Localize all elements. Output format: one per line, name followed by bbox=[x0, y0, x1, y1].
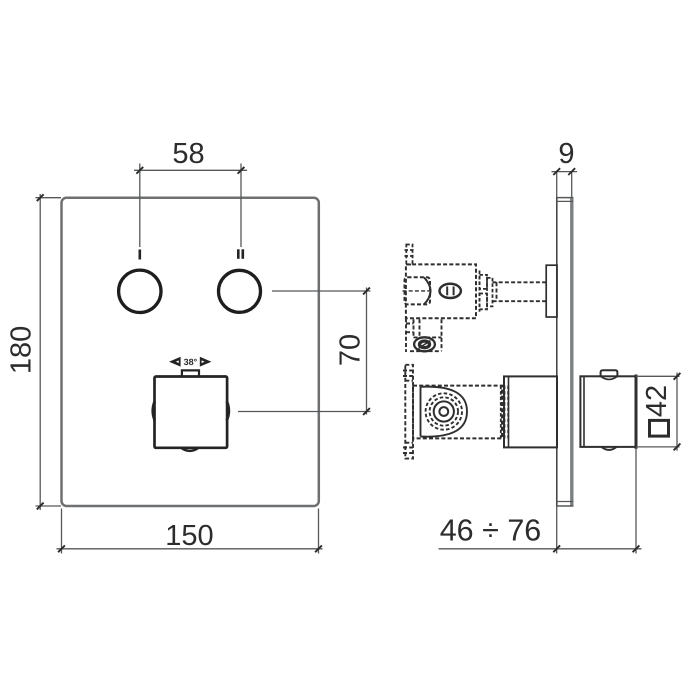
dimension 58 ticks bbox=[136, 167, 244, 174]
square button bottom clip bbox=[181, 448, 198, 451]
cartridge inner cap bbox=[403, 277, 431, 304]
handle top tab inner arc bbox=[601, 376, 618, 379]
lower bracket bbox=[403, 365, 413, 459]
dimension 150 bbox=[57, 509, 323, 554]
svg-text:180: 180 bbox=[5, 326, 37, 374]
svg-text:46 ÷ 76: 46 ÷ 76 bbox=[440, 514, 542, 548]
svg-text:42: 42 bbox=[641, 385, 673, 417]
dimension 180 ticks bbox=[37, 194, 44, 509]
svg-text:9: 9 bbox=[558, 138, 574, 170]
cartridge shaft bbox=[493, 282, 547, 301]
handle face extension line bbox=[635, 449, 637, 554]
svg-text:58: 58 bbox=[172, 138, 204, 170]
knob circle II bbox=[219, 270, 261, 312]
handle body bbox=[580, 375, 636, 449]
cartridge main body bbox=[406, 264, 476, 318]
cartridge right steps bbox=[480, 271, 493, 312]
side plate body bbox=[556, 198, 573, 506]
dimension 46-76 ticks bbox=[553, 545, 639, 552]
square button top tab bbox=[182, 370, 199, 376]
cartridge screw ellipse bbox=[440, 284, 461, 298]
lower valve cylinder bbox=[504, 376, 557, 447]
dimension 180 bbox=[36, 194, 62, 510]
plate bottom extension line bbox=[556, 506, 558, 554]
dimension 70 ticks bbox=[363, 288, 370, 415]
38 degree icon right triangle bbox=[200, 357, 212, 367]
lower valve D outline bbox=[421, 387, 468, 437]
dimension 42 bbox=[636, 373, 680, 451]
lower valve joint hatch bbox=[501, 386, 508, 439]
front plate bbox=[62, 198, 319, 506]
dimension 42 square symbol bbox=[650, 420, 669, 436]
dimension 9 bbox=[552, 172, 578, 197]
thermostat square button bbox=[155, 377, 228, 448]
knob circle I bbox=[119, 270, 161, 312]
dimension 42 ticks bbox=[674, 373, 681, 450]
dimension 46-76 line bbox=[439, 548, 642, 550]
square button right clip bbox=[227, 401, 229, 420]
dimension 70 bbox=[238, 288, 371, 415]
svg-text:70: 70 bbox=[335, 334, 367, 366]
dimension 58 line bbox=[134, 164, 247, 248]
svg-text:38°: 38° bbox=[184, 357, 198, 367]
cartridge elbow body bbox=[406, 318, 442, 352]
label II bbox=[238, 249, 243, 258]
cartridge wall flange bbox=[546, 265, 557, 317]
lower valve concentric rings bbox=[426, 393, 462, 429]
38 degree icon left triangle bbox=[169, 357, 181, 367]
svg-text:150: 150 bbox=[165, 520, 213, 552]
square button left clip bbox=[153, 401, 155, 420]
lower valve dashed body bbox=[413, 386, 502, 439]
label I bbox=[139, 250, 142, 260]
handle top tab bbox=[601, 370, 618, 376]
cartridge hose barb tab bbox=[405, 245, 415, 265]
dimension 9 ticks bbox=[553, 168, 575, 175]
handle bottom clip bbox=[602, 447, 617, 450]
dimension 150 ticks bbox=[58, 545, 322, 552]
elbow port ellipse bbox=[414, 337, 435, 351]
